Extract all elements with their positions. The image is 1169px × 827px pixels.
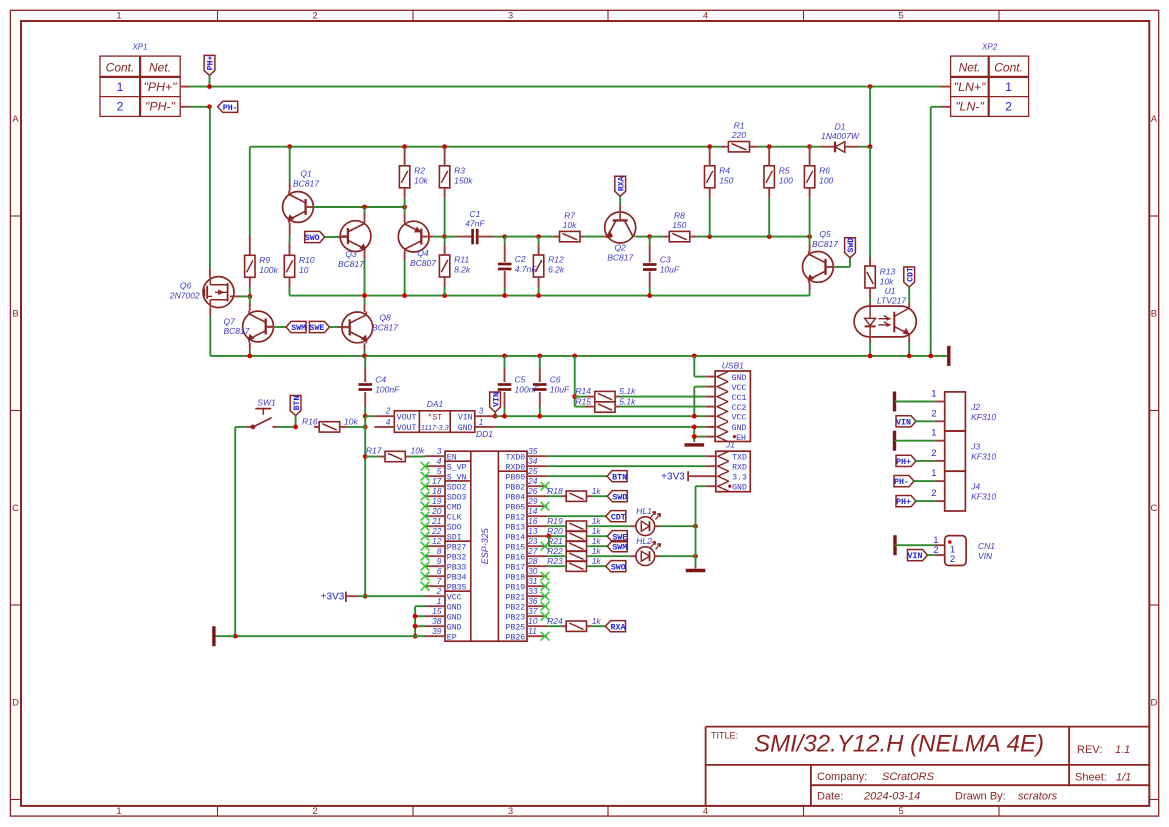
net label RXA [615,176,626,196]
svg-text:13: 13 [528,526,538,536]
net label SWD [845,238,856,258]
junction emitter rail [502,293,507,298]
svg-text:PB02: PB02 [506,484,526,493]
svg-text:R12: R12 [548,255,564,265]
svg-text:2: 2 [931,408,936,419]
svg-text:SWD: SWD [847,238,856,253]
wire R23 to SWO [587,565,606,567]
svg-text:C4: C4 [375,375,386,385]
junction BTN node [293,425,298,430]
wire R12 pins [538,237,540,245]
svg-text:GND: GND [447,604,462,613]
svg-text:10k: 10k [563,220,577,230]
svg-text:PH+: PH+ [207,55,216,70]
resistor R10 [284,255,294,277]
net label PH- [218,101,238,112]
svg-text:1: 1 [931,428,936,439]
resistor R7 [560,231,581,241]
wire C1 right [477,236,494,238]
svg-text:2: 2 [933,545,938,556]
junction emitter rail [442,293,447,298]
svg-text:PB16: PB16 [506,554,526,563]
wire C6 top [539,356,541,368]
wire Q6 source down to ground bus [209,308,211,316]
svg-text:PB26: PB26 [506,634,526,643]
svg-text:29: 29 [527,496,538,506]
svg-text:150: 150 [719,175,733,185]
svg-text:1: 1 [116,806,121,817]
wire down to R14/R15 [574,356,576,407]
resistor R18 [566,491,586,501]
svg-text:PB15: PB15 [506,544,526,553]
svg-text:25: 25 [527,466,538,476]
svg-text:37: 37 [528,606,538,616]
svg-text:KF310: KF310 [971,412,996,422]
svg-text:1: 1 [931,389,936,400]
svg-text:2024-03-14: 2024-03-14 [863,791,920,803]
wire SW1 left vertical to bottom rail [234,427,236,636]
resistor R21 [566,541,586,551]
svg-text:SDO3: SDO3 [447,494,467,503]
connector J3 [945,431,966,471]
resistor R16 [319,422,340,432]
net label VIN [490,392,501,412]
wire Q7 emitter to ground bus [249,342,251,350]
wire Q6 gate to node [230,295,240,297]
svg-text:3: 3 [437,446,442,456]
svg-text:PB12: PB12 [506,514,526,523]
wire R22 to HL2 [587,555,631,557]
wire Q4 base [421,236,433,238]
svg-text:J1: J1 [725,440,735,450]
svg-text:R9: R9 [259,255,270,265]
wire Q5 collector [809,237,811,244]
wire CDT to U1 [908,287,910,303]
net label SWO [606,561,626,572]
svg-text:SWM: SWM [612,543,627,552]
IC DD1 ESP-325 body [445,451,527,641]
svg-text:PH-: PH- [223,104,238,113]
wire J2 pin2 [916,420,935,422]
junction Q1 base / Q3 collector [362,205,367,210]
svg-text:R17: R17 [366,446,382,456]
svg-text:1k: 1k [592,536,602,546]
svg-text:SWO: SWO [611,563,626,572]
svg-text:2: 2 [950,554,955,565]
svg-text:PB32: PB32 [447,554,467,563]
wire RXA to Q2 base [619,196,621,205]
svg-text:"PH+": "PH+" [144,80,178,94]
svg-text:RXA: RXA [611,623,626,632]
svg-text:1k: 1k [592,516,602,526]
svg-text:SMI/32.Y12.H (NELMA 4E): SMI/32.Y12.H (NELMA 4E) [754,731,1044,758]
wire R7 right to Q2 emitter [580,236,584,238]
wire PB17 to R23 [547,565,566,567]
transistor Q6 2N7002 MOSFET [203,277,234,308]
svg-text:PB21: PB21 [506,594,526,603]
resistor R13 [865,266,875,288]
junction top bus [807,144,812,149]
svg-text:"LN+": "LN+" [954,80,986,94]
wire R16 right [340,426,347,428]
wire R13 bottom to U1 [869,288,871,298]
svg-text:VOUT: VOUT [397,414,417,423]
wire top bus [250,146,721,148]
svg-text:3: 3 [479,406,484,415]
svg-text:Date:: Date: [817,791,843,803]
svg-text:1117-3.3: 1117-3.3 [421,423,449,432]
net label PH- [894,476,914,487]
junction GND row [692,425,697,430]
svg-text:J4: J4 [970,482,980,492]
junction DA1 VOUT2 node [363,414,368,419]
junction emitter rail [647,293,652,298]
optocoupler U1 LTV217 [854,306,916,337]
svg-text:R16: R16 [302,416,318,426]
resistor R22 [566,551,586,561]
svg-text:"LN-": "LN-" [955,100,984,114]
svg-text:Q4: Q4 [417,248,429,258]
svg-text:*ST: *ST [427,413,442,423]
svg-text:220: 220 [731,130,746,140]
svg-text:Q8: Q8 [379,313,391,323]
svg-text:2: 2 [312,806,317,817]
svg-text:9: 9 [437,556,442,566]
wire Q1 collector to top bus [289,147,291,183]
wire Q5 emitter corner to rail [809,282,811,290]
svg-text:TITLE:: TITLE: [711,731,738,741]
wire TXD0 to J1 [547,455,705,457]
svg-text:5: 5 [898,11,903,22]
junction VIN node [493,414,498,419]
svg-text:VCC: VCC [732,384,747,393]
junction ground bus [907,354,912,359]
junction C1/C2 node [502,234,507,239]
svg-text:1: 1 [437,596,442,606]
wire Q8 collector to rail [364,296,366,304]
svg-text:+3V3: +3V3 [661,472,685,483]
junction top bus [868,144,873,149]
junction +3V3 node [363,594,368,599]
wire Q1 base to R2 node [306,206,314,208]
resistor R14 [595,391,615,401]
svg-text:8.2k: 8.2k [454,265,471,275]
net label SWD [607,491,627,502]
junction HL2 [693,554,698,559]
junction R4 bottom [707,234,712,239]
svg-text:EN: EN [447,454,457,463]
DD1 no-connect flags left [421,462,430,471]
net label SWM [286,321,306,332]
resistor R24 [566,621,586,631]
wire BTN stub [295,416,297,427]
resistor R19 [566,521,586,531]
wire C2 to R12 to R7 [505,236,554,238]
svg-text:27: 27 [527,546,538,556]
svg-text:150: 150 [672,220,686,230]
svg-text:SDO2: SDO2 [447,484,467,493]
junction PH- node [207,104,212,109]
svg-text:4: 4 [386,418,391,427]
resistor R9 [245,255,255,277]
svg-text:BC817: BC817 [224,326,250,336]
capacitor C3 [643,263,657,266]
junction emitter rail [402,293,407,298]
resistor R12 [533,255,543,277]
svg-text:REV:: REV: [1077,744,1102,756]
wire Q3 emitter to rail [364,252,366,259]
svg-text:PH+: PH+ [896,498,911,507]
transistor Q1 [283,192,314,223]
capacitor C5 [498,383,512,386]
svg-text:CC2: CC2 [732,404,747,413]
svg-text:Sheet:: Sheet: [1075,772,1107,784]
wire R20 to SWE [587,535,608,537]
wire Q4 bottom to rail [404,252,406,260]
svg-text:R1: R1 [734,121,745,131]
svg-text:R15: R15 [575,397,591,407]
wire top node down to R13 [869,147,871,257]
svg-text:CDT: CDT [906,267,915,282]
wire bottom rail [235,635,425,637]
svg-text:35: 35 [528,446,538,456]
wire SWE to Q8 base [329,326,338,328]
svg-text:GND: GND [458,424,473,433]
wire VIN row [495,415,695,417]
wire bottom rail to ground bar [214,635,235,637]
junction ground bus [362,354,367,359]
wire USB GND chain [693,427,695,442]
svg-text:100nF: 100nF [375,385,400,395]
svg-text:HL1: HL1 [636,506,652,516]
junction bottom rail SW1 [233,634,238,639]
junction EP [413,634,418,639]
wire PB14 branch down to R21 [548,536,550,546]
svg-text:R24: R24 [547,616,563,626]
svg-text:HL2: HL2 [636,536,652,546]
svg-text:Q2: Q2 [615,243,627,253]
junction R6/Q5 collector [807,234,812,239]
svg-text:RXD0: RXD0 [506,464,526,473]
svg-text:1: 1 [1005,80,1012,94]
border column ticks [217,10,219,21]
svg-text:10k: 10k [344,416,358,426]
svg-text:+3V3: +3V3 [321,592,345,603]
wire GND row from DA1 [495,426,695,428]
wire +3V3 to VCC pin [365,595,425,597]
svg-text:21: 21 [431,516,442,526]
svg-text:BTN: BTN [612,473,627,482]
svg-text:1N4007W: 1N4007W [821,131,860,141]
svg-text:30: 30 [528,566,538,576]
svg-text:2: 2 [436,586,442,596]
wire R2 pins [404,147,406,166]
wire R6 pins [809,147,811,166]
resistor R20 [566,531,586,541]
svg-text:VIN: VIN [896,418,911,427]
resistor R23 [566,561,586,571]
transistor Q7 [243,311,274,342]
wire HL1 to gnd chain [655,525,660,527]
svg-text:PB25: PB25 [506,624,526,633]
junction top bus [287,144,292,149]
junction HL1 [693,524,698,529]
svg-text:8: 8 [437,546,442,556]
svg-text:Net.: Net. [149,61,171,75]
svg-text:R19: R19 [547,516,563,526]
wire Q5 base to SWD [826,266,835,268]
svg-text:Q5: Q5 [819,229,831,239]
svg-text:4: 4 [437,456,442,466]
svg-text:VIN: VIN [458,414,473,423]
svg-text:R2: R2 [414,165,425,175]
svg-text:23: 23 [527,536,538,546]
junction PH+ / vertical to top bus [868,84,873,89]
svg-text:10: 10 [299,265,309,275]
junction ground bus [572,354,577,359]
svg-text:R4: R4 [719,165,730,175]
junction ground bus [247,354,252,359]
transistor Q5 [803,252,834,283]
junction R9/Q6 gate/Q7 collector [247,294,252,299]
junction C5 bottom [502,414,507,419]
svg-text:TXD0: TXD0 [506,454,526,463]
connector CN1 [945,536,966,566]
svg-text:2N7002: 2N7002 [169,290,200,300]
net label SWM [607,541,627,552]
wire HL2 to gnd chain [655,555,660,557]
wire top bus corner down to R9 [249,147,251,235]
ground [893,392,896,412]
net label PH+ [896,455,916,466]
svg-text:C2: C2 [515,254,526,264]
svg-text:R7: R7 [564,210,575,220]
wire USB VCC chain [693,387,695,417]
capacitor C6 [533,383,547,386]
svg-text:PB13: PB13 [506,524,526,533]
net label RXA [606,621,626,632]
svg-text:J3: J3 [970,442,980,452]
connector J2 [945,392,966,431]
svg-text:1/1: 1/1 [1116,772,1131,784]
wire J4 pin2 [916,500,935,502]
wire to R8 [650,236,664,238]
svg-text:ESP-325: ESP-325 [480,527,490,564]
junction R2 bottom [402,205,407,210]
border row ticks [10,215,21,217]
ground [212,626,215,646]
resistor R17 [385,451,405,461]
net label BTN [290,396,301,416]
junction ground bus [692,354,697,359]
svg-text:VIN: VIN [492,392,501,407]
junction PH+ flag [207,84,212,89]
svg-text:TXD: TXD [732,453,747,462]
svg-text:PB23: PB23 [506,614,526,623]
svg-text:scrators: scrators [1018,791,1058,803]
svg-text:PB17: PB17 [506,564,526,573]
svg-text:7: 7 [437,576,442,586]
svg-text:KF310: KF310 [971,452,996,462]
svg-text:PB05: PB05 [506,504,526,513]
svg-text:GND: GND [447,614,462,623]
svg-text:C: C [12,503,19,514]
wire C5 top [504,356,506,368]
wire LN- vertical to ground bus [930,107,932,356]
wire R15 right to USB CC2 [615,406,620,408]
wire XP2.2 LN- [941,106,951,108]
resistor R15 [595,402,615,412]
svg-text:5: 5 [898,806,903,817]
svg-text:4: 4 [703,806,708,817]
svg-text:C1: C1 [469,209,480,219]
svg-text:4: 4 [703,11,708,22]
svg-text:EH: EH [736,434,746,443]
wire PB16 to R22 [547,555,566,557]
svg-text:1k: 1k [592,526,602,536]
wire C5 bottom [504,392,506,407]
svg-text:Q6: Q6 [180,281,192,291]
svg-text:10k: 10k [414,175,428,185]
svg-text:CC1: CC1 [732,394,747,403]
svg-text:BTN: BTN [293,396,302,411]
svg-text:1k: 1k [592,546,602,556]
junction C6 bottom [537,414,542,419]
svg-text:SWO: SWO [305,234,320,243]
wire PH- vertical to Q6 drain [209,107,211,268]
svg-text:CDT: CDT [611,513,626,522]
svg-text:DA1: DA1 [427,399,444,409]
svg-text:R18: R18 [547,486,563,496]
junction top bus [402,144,407,149]
svg-text:BC817: BC817 [372,322,398,332]
svg-text:J2: J2 [970,402,980,412]
wire C1 left [445,236,456,238]
svg-text:SWD: SWD [612,493,627,502]
svg-text:26: 26 [527,486,538,496]
wire Q1 emitter to R10 [289,223,291,235]
junction GND15 [413,614,418,619]
wire R9 bottom to gate node [249,277,251,287]
net label CDT [904,267,915,287]
junction top bus [442,144,447,149]
junction DA1 VOUT4 node [363,425,368,430]
svg-text:100: 100 [819,175,833,185]
wire PB14 to R20 [547,535,566,537]
svg-text:R22: R22 [547,546,563,556]
svg-text:GND: GND [732,424,747,433]
svg-text:VCC: VCC [732,413,747,422]
net label VIN [908,550,928,561]
svg-text:C3: C3 [660,255,671,265]
svg-text:PB19: PB19 [506,584,526,593]
diode D1 [810,146,821,148]
wire U1 pins to ground bus [869,337,871,343]
svg-text:Cont.: Cont. [994,61,1023,75]
svg-text:BC817: BC817 [607,252,633,262]
svg-text:A: A [1151,114,1158,125]
svg-text:PB14: PB14 [506,534,526,543]
svg-text:RXD: RXD [732,463,747,472]
transistor Q8 [342,312,373,343]
svg-text:S_VP: S_VP [447,464,467,473]
wire J2 pin1 [895,401,935,403]
svg-text:VIN: VIN [908,552,923,561]
svg-text:B: B [12,308,18,319]
svg-text:R13: R13 [880,267,896,277]
svg-text:C6: C6 [550,375,561,385]
transistor Q2 BC817 (rotated) [605,212,636,243]
